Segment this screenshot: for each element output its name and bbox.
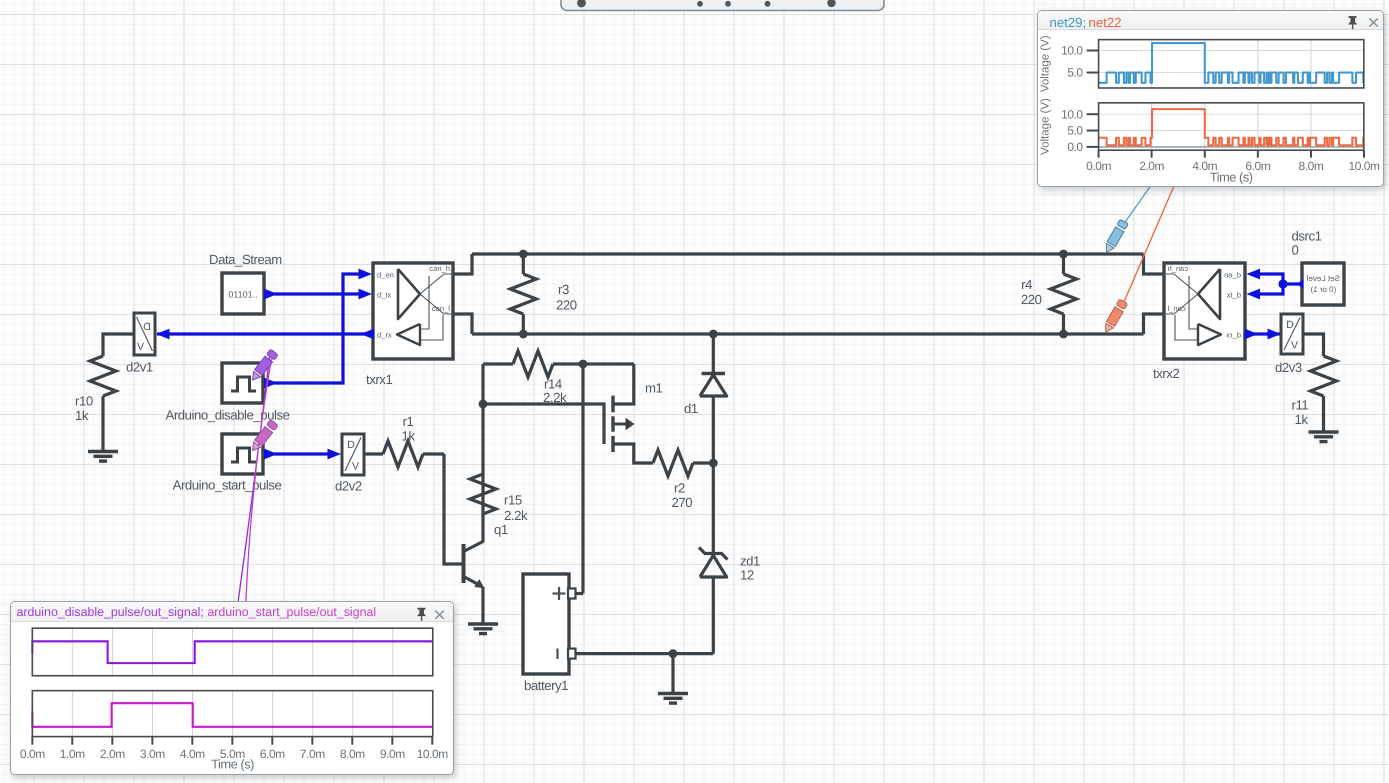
resistor r10 [90,356,116,452]
label r15 value [504,493,528,524]
arrow at txrx2 d_tx pin [1247,289,1261,300]
digital source Data_Stream box [222,273,264,314]
svg-text:txrx1: txrx1 [366,372,392,387]
transceiver txrx1 body [373,263,453,359]
trace arduino_start_pulse/out_signal [32,703,432,727]
wire nodeA vertical [481,364,484,406]
svg-text:0.0m: 0.0m [20,747,45,761]
wire txrx2 d_rx to d2v3 [1246,332,1282,335]
svg-text:V: V [1291,340,1298,352]
svg-text:d_tx: d_tx [377,290,392,299]
txrx1 pin d_en [377,270,394,279]
dsrc1 Set Level text [1306,274,1340,294]
probe line arduino_disable (violet) [238,357,269,601]
toolbar (cut off at top) [561,0,884,11]
m1 source lead [613,444,653,463]
svg-text:V: V [352,461,359,473]
wire zd1 to bottom net [712,577,715,654]
popup arduino pulses pin icon [417,608,426,621]
svg-text:r1: r1 [403,414,414,429]
wire r2 node to zd1 [712,463,715,554]
svg-text:r15: r15 [504,493,522,508]
svg-text:d1: d1 [684,401,698,416]
wire Data_Stream to txrx1 d_tx [266,292,359,295]
junction r3 top [519,250,528,259]
svg-text:4.0m: 4.0m [180,747,205,761]
svg-text:d2v3: d2v3 [1275,360,1302,375]
svg-text:10.0: 10.0 [1061,107,1083,121]
txrx2 pin can_l [1167,304,1185,313]
svg-text:Time (s): Time (s) [211,756,254,771]
time axis popup2 [20,737,448,772]
label d2v3 [1275,360,1302,375]
txrx2 pin d_rx [1226,330,1241,339]
svg-text:D: D [1286,319,1294,331]
junction bottom ground node [669,649,678,658]
wire can_l bottom rail [472,332,1144,335]
battery1 minus terminal [558,649,576,660]
probe arduino_start_pulse (magenta pencil) [249,420,278,454]
resistor r11 [1311,356,1337,432]
svg-text:1k: 1k [401,429,415,444]
plot arduino_disable grid [72,628,392,676]
probe net29 (blue pencil) [1102,219,1128,255]
svg-text:(0 or 1): (0 or 1) [1310,285,1336,294]
converter d2v2 box [342,434,364,475]
label r1 value [401,414,415,444]
svg-text:8.0m: 8.0m [1298,159,1323,173]
label d2v1 [126,360,153,375]
svg-text:6.0m: 6.0m [260,747,285,761]
axis net29 ticks [1061,44,1098,80]
wire q1 collector to r15 [481,474,484,543]
probe arduino_disable_pulse (violet pencil) [249,349,278,383]
label r2 value [672,481,693,511]
label r11 value [1292,398,1309,428]
q1 emitter arrow [474,579,484,588]
svg-text:9.0m: 9.0m [380,747,405,761]
junction r4 bottom [1059,330,1068,339]
label battery1 [524,678,568,693]
wire ground stem [671,654,674,694]
wire txrx1 can_h to rail [453,254,472,274]
wire r14 junction to m1 drain [583,362,634,365]
probe line net29 (blue) [1125,184,1153,223]
popup arduino pulses close icon [435,611,444,619]
wire gate from node A [483,404,604,444]
txrx2 pin d_tx [1226,290,1241,299]
wire node A to r14 [483,362,513,365]
svg-text:10.0m: 10.0m [1348,159,1379,173]
svg-text:r4: r4 [1021,277,1032,292]
arrow txrx2 d_rx out flare [1245,329,1259,340]
svg-text:Time (s): Time (s) [1209,169,1252,184]
wire r1 to q1 base [444,454,462,564]
d2v2 D V letters [345,438,361,473]
popup net29/net22 pin icon [1348,16,1357,29]
axis label Voltage (V) top [1039,35,1051,92]
arrow txrx1 d_rx out flare [361,329,375,340]
probe line net22 (orange) [1124,186,1175,303]
svg-text:r11: r11 [1292,398,1309,413]
m1 bulk arrow [613,418,635,430]
wire txrx1 can_l to rail [453,314,472,334]
wire battery plus stub [576,592,584,595]
label r14 value [543,377,567,406]
plot arduino_start grid [72,691,392,737]
probe line arduino_start (magenta) [246,359,272,601]
converter d2v3 box [1281,314,1303,354]
svg-text:D: D [143,321,151,333]
svg-text:1k: 1k [1295,412,1309,427]
svg-text:d_tx: d_tx [1226,290,1241,299]
arrow at txrx1 d_tx pin [359,289,373,300]
label dsrc1 value [1292,229,1322,258]
svg-text:q1: q1 [494,522,508,537]
transceiver txrx2 body [1164,263,1245,359]
junction r4 top [1059,250,1068,259]
svg-text:Voltage (V): Voltage (V) [1039,35,1051,92]
transistor q1 [464,542,484,587]
svg-text:10.0: 10.0 [1061,44,1083,58]
wire disable_pulse to txrx1 d_en [266,274,359,383]
txrx1 pin d_rx [377,330,392,339]
svg-text:220: 220 [1021,292,1042,307]
label d2v2 [335,479,362,494]
junction node A [479,400,488,409]
svg-text:2.2k: 2.2k [504,508,528,523]
label d1 [684,401,698,416]
svg-text:5.0: 5.0 [1067,66,1083,80]
wire txrx1 d_rx to d2v1 [157,332,372,335]
popup net29/net22 close icon [1369,18,1377,26]
svg-text:270: 270 [672,495,693,510]
svg-text:10.0m: 10.0m [417,747,449,761]
wire d1 to r2 node [712,396,715,463]
trace arduino_disable_pulse/out_signal [32,641,432,663]
svg-text:5.0: 5.0 [1067,124,1083,138]
battery1 plus terminal [553,587,576,600]
svg-text:2.0m: 2.0m [100,747,125,761]
svg-text:battery1: battery1 [524,678,568,693]
mosfet m1 channel [611,396,614,452]
arrow at txrx1 d_en pin [359,269,373,280]
label r4 value [1021,277,1042,307]
txrx2 driver triangle [1198,269,1220,319]
digital source dsrc1 box [1302,263,1344,305]
wire dsrc1 to txrx2 [1260,274,1301,294]
arrow disable_pulse output [264,378,278,389]
label zd1 value [740,554,760,583]
plot net22 grid [1098,103,1363,150]
label txrx1 [366,372,392,387]
axis net22 ticks [1061,107,1098,154]
svg-text:r2: r2 [674,481,685,496]
wire d2v3 to r11 [1303,334,1324,356]
wire start_pulse to d2v2 [266,452,329,455]
d2v3 D V letters [1284,318,1300,352]
svg-text:dsrc1: dsrc1 [1292,229,1322,244]
svg-text:r3: r3 [558,282,569,297]
junction r3 bottom [519,330,528,339]
svg-text:r10: r10 [75,394,93,409]
svg-text:can_h: can_h [429,264,450,273]
svg-text:d_en: d_en [377,270,394,279]
ground below r11 [1309,432,1339,442]
svg-text:d_rx: d_rx [1226,330,1241,339]
diode d1 [700,374,727,397]
probe net22 (orange pencil) [1102,299,1128,335]
svg-text:1k: 1k [75,408,89,423]
txrx2 pin d_en [1224,270,1241,279]
arrow at d2v1 input [156,329,170,340]
pulse source Arduino_start_pulse box [222,434,263,474]
svg-text:0.0: 0.0 [1067,140,1083,154]
resistor r15 [470,474,496,514]
resistor r3 [510,254,536,334]
m1 drain lead [613,364,634,404]
arrow start_pulse output [264,449,278,460]
svg-text:01101..: 01101.. [228,290,257,300]
txrx2 pin can_h [1168,264,1189,273]
wire r15 top to gate node [481,404,484,474]
ground below r10 [88,452,118,462]
svg-text:8.0m: 8.0m [340,747,365,761]
plot net29 frame [1098,40,1363,88]
txrx1 receiver triangle [397,324,420,345]
svg-text:zd1: zd1 [740,554,760,569]
svg-text:1.0m: 1.0m [60,747,85,761]
plot net22 frame [1098,103,1363,150]
svg-text:d2v2: d2v2 [335,479,362,494]
plot arduino_disable frame [32,628,432,676]
junction d1 top [709,330,718,339]
txrx1 pin d_tx [377,290,392,299]
wire d2v1 to r10 [103,334,134,356]
converter d2v1 box [134,313,155,355]
pulse source Arduino_disable_pulse box [222,363,263,403]
trace net29 [1098,43,1363,83]
junction dsrc1 wire split [1278,279,1287,288]
svg-text:220: 220 [556,298,577,313]
svg-text:can_l: can_l [1167,304,1185,313]
plot net29 grid [1098,40,1363,88]
label q1 [494,522,508,537]
ground below q1 [468,624,498,634]
svg-text:Set Level: Set Level [1306,274,1340,283]
junction r14 right [579,360,588,369]
junction r2 right [709,459,718,468]
label Arduino_start_pulse [173,478,282,493]
svg-text:d_rx: d_rx [377,330,392,339]
svg-text:Data_Stream: Data_Stream [209,252,282,267]
label Arduino_disable_pulse [166,408,290,423]
ground main [658,694,688,704]
wire rail to d1 [712,334,715,374]
axis label Voltage (V) bottom [1039,98,1051,155]
txrx1 pin can_h [429,264,450,273]
arrow at txrx2 d_en pin [1247,269,1261,280]
Arduino_start_pulse glyph [231,448,256,462]
Data_Stream bits text [228,290,257,300]
svg-text:Arduino_start_pulse: Arduino_start_pulse [173,478,282,493]
svg-text:12: 12 [740,568,754,583]
svg-text:D: D [347,439,355,451]
txrx1 driver triangle [398,269,420,319]
svg-text:can_h: can_h [1168,264,1189,273]
svg-text:0.0m: 0.0m [1086,159,1111,173]
txrx1 internal nets [420,274,453,340]
arrow Data_Stream output [264,289,278,300]
label m1 [645,381,663,396]
zener zd1 [699,548,728,578]
txrx1 pin can_l [432,304,450,313]
wire d2v2 to r1 [364,452,383,455]
Arduino_disable_pulse glyph [231,377,256,391]
resistor r14 [513,351,583,377]
plot arduino_start frame [32,691,432,737]
label txrx2 [1153,366,1179,381]
svg-text:d2v1: d2v1 [126,360,153,375]
svg-text:3.0m: 3.0m [140,747,165,761]
trace net22 [1098,109,1363,145]
resistor r4 [1051,254,1077,334]
svg-text:V: V [137,341,144,353]
arrow dsrc1 output [1297,279,1304,288]
wire can_h top rail [472,252,1144,255]
svg-text:m1: m1 [645,381,663,396]
d2v1 D V letters [137,317,153,353]
wire q1 emitter to ground [481,587,484,624]
svg-text:can_l: can_l [432,304,450,313]
wire txrx2 can_l to rail [1144,314,1165,334]
wire txrx2 can_h to rail [1144,254,1165,274]
arrow at d2v3 input [1268,329,1282,340]
label r10 value [75,394,93,424]
label r3 value [556,282,577,313]
svg-text:d_en: d_en [1224,270,1241,279]
popup net29/net22 title bar [1038,11,1384,30]
svg-text:0: 0 [1292,243,1299,258]
resistor r2 [653,450,713,476]
svg-text:txrx2: txrx2 [1153,366,1179,381]
arrow at d2v2 input [328,449,342,460]
resistor r1 [383,441,444,467]
svg-text:2.0m: 2.0m [1139,159,1164,173]
popup arduino pulses title bar [11,602,453,622]
time axis popup1 [1086,150,1380,184]
txrx2 internal nets [1164,274,1198,340]
svg-text:Voltage (V): Voltage (V) [1039,98,1051,155]
wire battery plus riser [581,364,584,594]
txrx2 receiver triangle [1198,324,1221,345]
label Data_Stream [209,252,282,267]
svg-text:7.0m: 7.0m [300,747,325,761]
battery battery1 box [523,574,569,674]
wire battery minus net [576,652,714,655]
